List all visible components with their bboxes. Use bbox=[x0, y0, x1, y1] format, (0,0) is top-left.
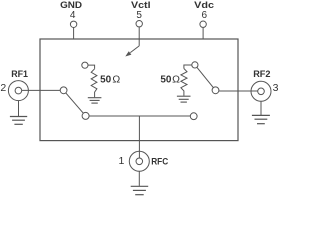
wire S2 common to RF2 bbox=[219, 90, 258, 92]
wire Vctl pin into box bbox=[138, 27, 140, 46]
svg-text:4: 4 bbox=[70, 10, 76, 21]
wire Vdc pin to box bbox=[202, 27, 204, 39]
svg-text:RF1: RF1 bbox=[11, 69, 28, 80]
pin 5 Vctl pin circle bbox=[136, 21, 142, 27]
svg-text:RF2: RF2 bbox=[253, 69, 270, 80]
switch S2 arm bbox=[197, 67, 214, 87]
svg-text:1: 1 bbox=[118, 155, 124, 167]
wire rail to RFC pin bbox=[138, 116, 140, 141]
switch S1 arm bbox=[66, 93, 84, 113]
ground lead RF2 bbox=[260, 101, 262, 115]
ground R2 bars bbox=[177, 95, 191, 97]
ground lead RF1 bbox=[18, 101, 20, 117]
node R2 tap circle bbox=[192, 62, 198, 68]
node bottom rail right circle bbox=[190, 113, 197, 120]
connector RF2 inner bbox=[258, 88, 265, 95]
connector RFC outer bbox=[129, 151, 149, 171]
control arrow from Vctl bbox=[130, 46, 139, 53]
connector RF2 outer bbox=[251, 81, 271, 101]
node R1 tap circle bbox=[82, 62, 88, 68]
svg-text:6: 6 bbox=[202, 10, 208, 21]
pin 4 GND pin circle bbox=[70, 21, 76, 27]
node switch S1 throw bbox=[82, 112, 89, 119]
resistor R2 50ohm bbox=[181, 69, 187, 96]
connector RF1 outer bbox=[8, 81, 28, 101]
resistor R1 50ohm bbox=[91, 69, 97, 98]
svg-text:3: 3 bbox=[273, 82, 279, 94]
ground R1 bars bbox=[88, 97, 102, 99]
ground RF1 bars bbox=[10, 116, 27, 118]
svg-text:RFC: RFC bbox=[151, 157, 168, 168]
node switch S1 common bbox=[60, 87, 67, 94]
svg-text:5: 5 bbox=[136, 10, 142, 21]
component outline U1 bbox=[40, 39, 238, 141]
node switch S2 common bbox=[212, 87, 219, 94]
connector RFC inner bbox=[136, 158, 143, 165]
ground RF2 bars bbox=[252, 114, 270, 116]
pin 6 Vdc pin circle bbox=[200, 21, 206, 27]
svg-text:50Ω: 50Ω bbox=[160, 73, 180, 85]
wire R2 tap lead bbox=[184, 65, 192, 69]
wire box to RFC connector bbox=[138, 141, 140, 158]
ground RFC bars bbox=[131, 185, 149, 187]
wire R1 tap lead bbox=[88, 65, 95, 69]
connector RF1 inner bbox=[15, 87, 22, 94]
svg-text:50Ω: 50Ω bbox=[100, 74, 120, 86]
svg-text:2: 2 bbox=[0, 82, 6, 94]
wire bottom common rail bbox=[89, 115, 190, 117]
wire GND pin to box bbox=[73, 28, 75, 40]
ground lead RFC bbox=[138, 171, 140, 186]
wire RF1 to switch common bbox=[22, 89, 61, 91]
